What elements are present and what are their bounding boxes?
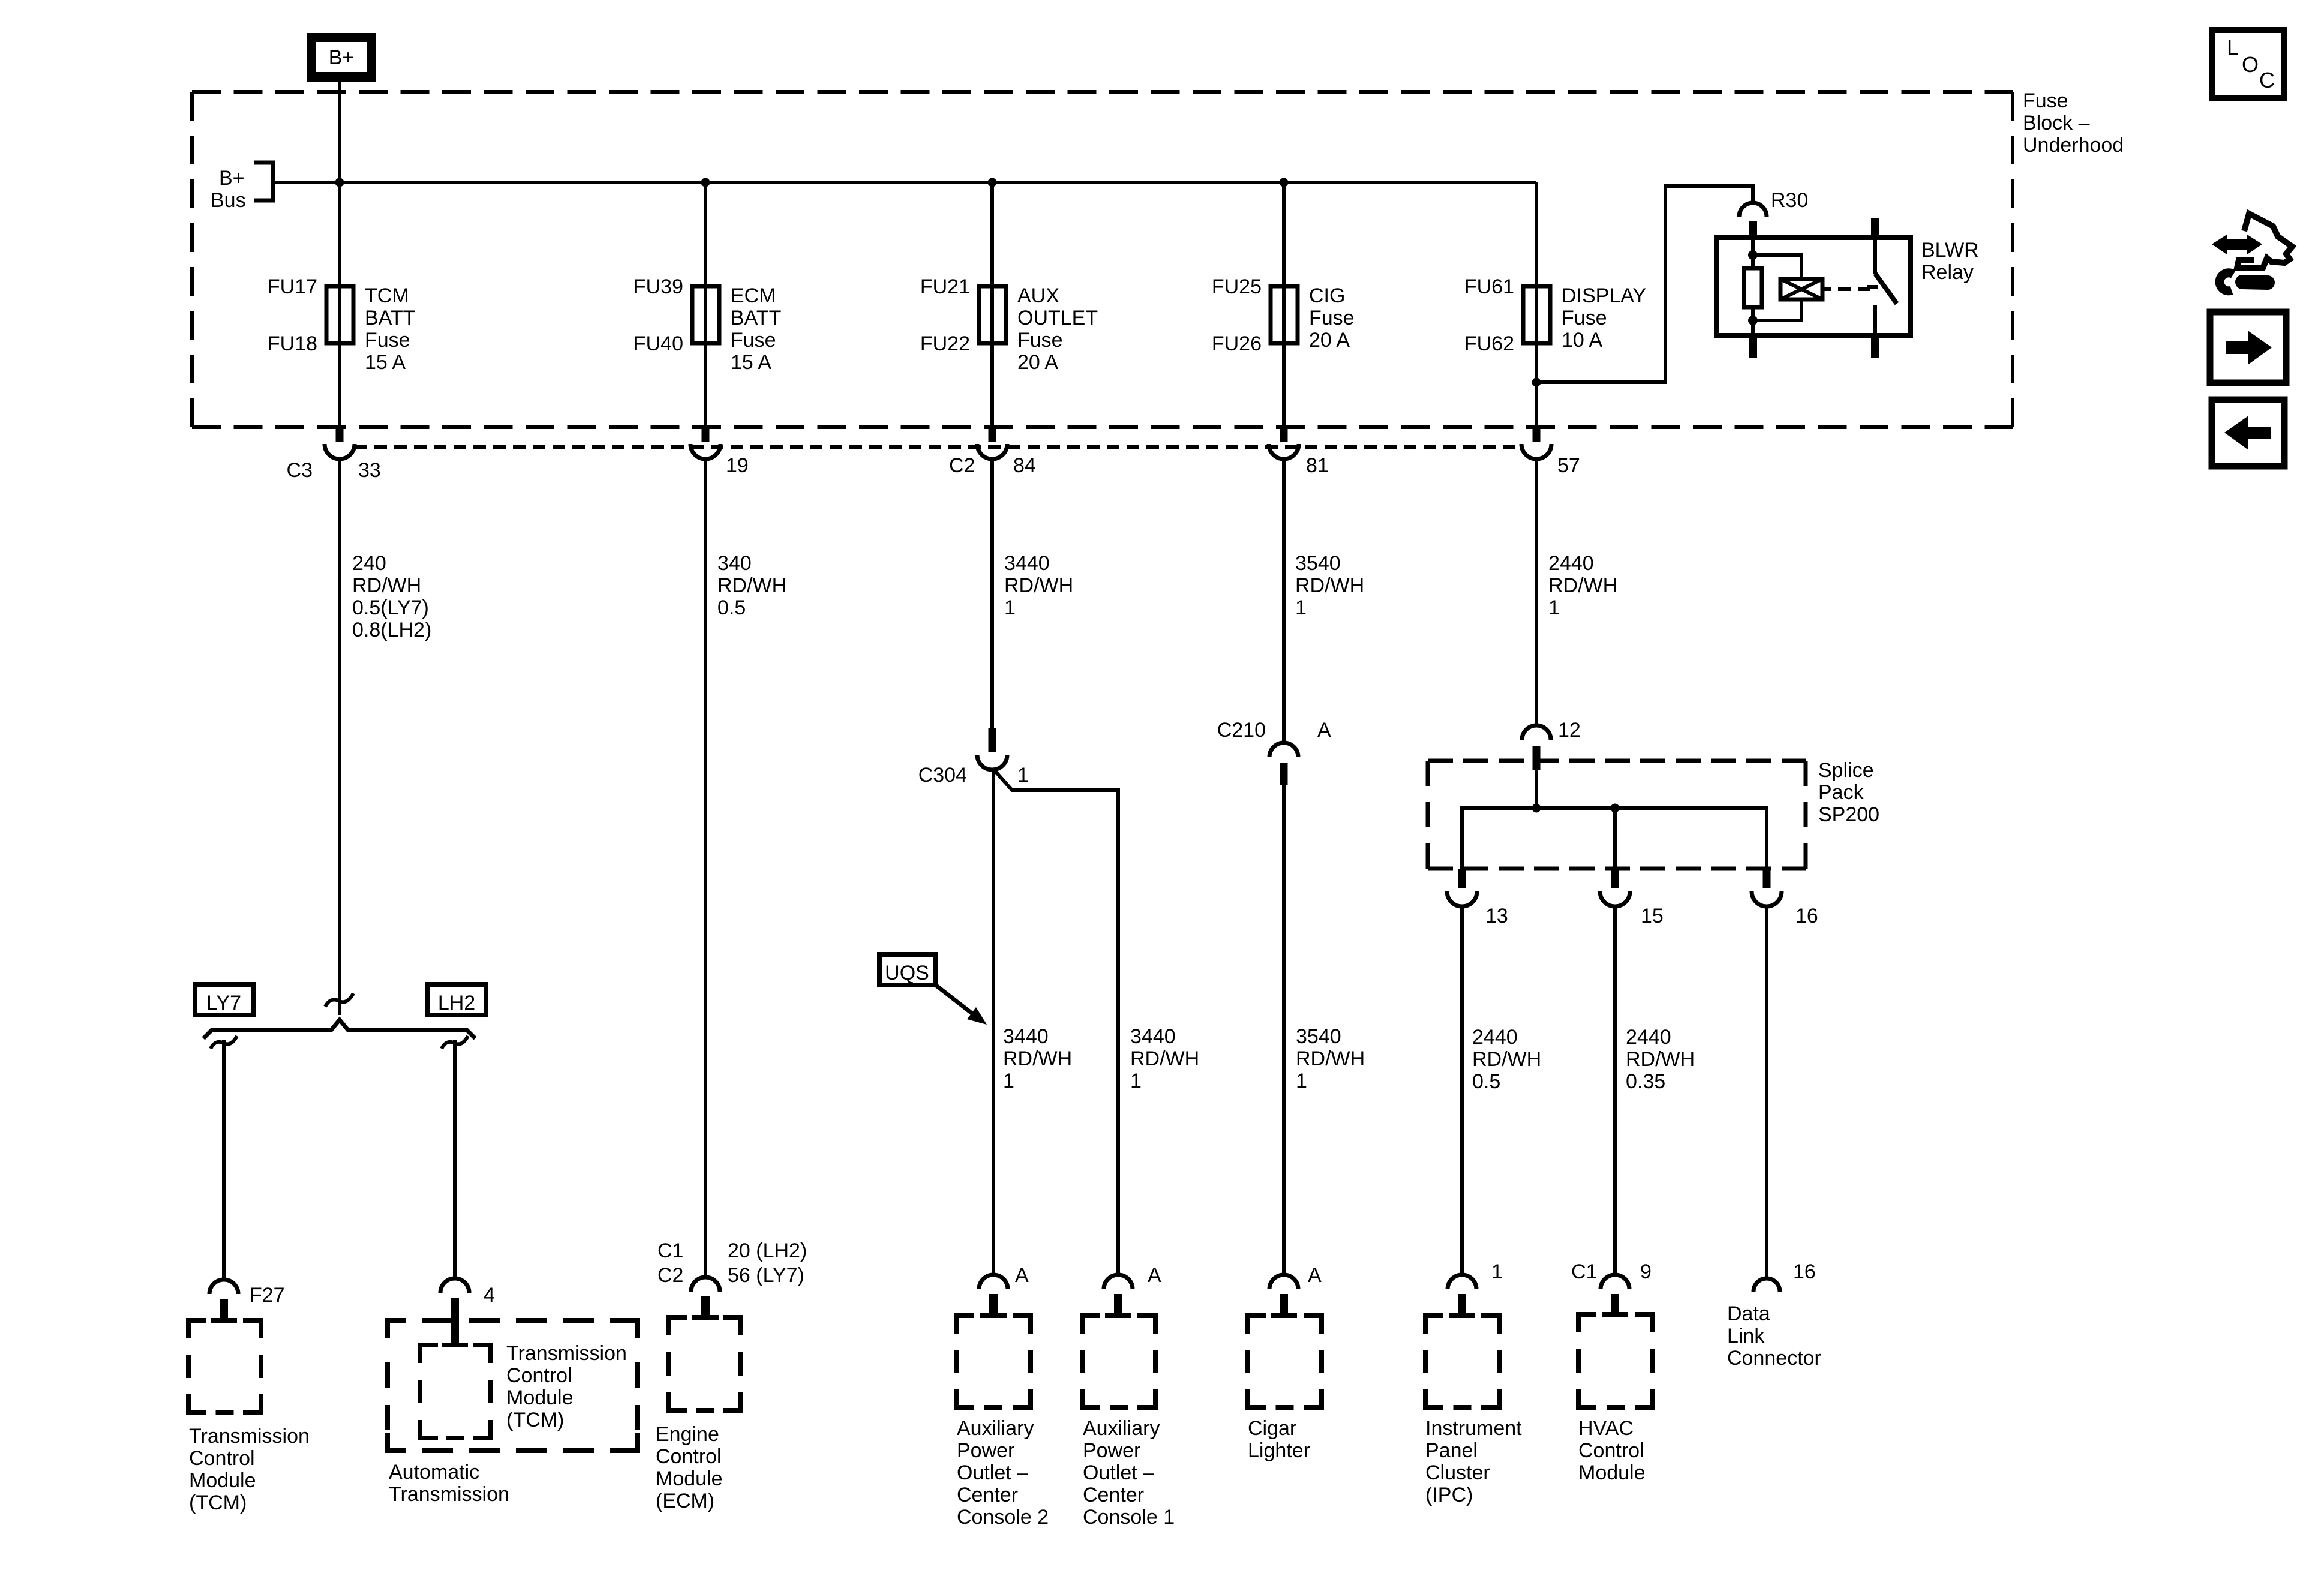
wire circuit 240 from C3 down (338, 459, 341, 1015)
svg-text:C304: C304 (918, 764, 967, 786)
connector splice output 16 (1752, 869, 1782, 906)
label Data Link Connector (1727, 1302, 1821, 1370)
connector 4 at automatic transmission (440, 1278, 469, 1347)
svg-text:BATT: BATT (365, 307, 415, 329)
svg-text:FU40: FU40 (633, 332, 683, 355)
module box HVAC Control Module (1578, 1314, 1653, 1407)
svg-text:B+: B+ (329, 46, 355, 69)
wire C210 to cigar lighter (1282, 785, 1286, 1276)
svg-text:84: 84 (1013, 454, 1036, 477)
icon wrench (2220, 273, 2268, 291)
label wire 3540 RD/WH lower (1296, 1025, 1365, 1092)
module box Cigar Lighter (1248, 1316, 1322, 1407)
connector row dotted line (355, 445, 1522, 449)
svg-text:Module: Module (506, 1386, 574, 1409)
connector pin 81 at fuse block output (1269, 425, 1299, 459)
wire winding to coil bottom junction (1753, 299, 1801, 320)
fuse block underhood dashed border (192, 92, 2013, 427)
connector at relay coil pin R30 (1739, 203, 1767, 239)
module box Automatic Transmission (388, 1320, 638, 1451)
relay switch blade (1875, 274, 1897, 304)
label fuse name DISPLAY (1562, 284, 1646, 352)
svg-text:Connector: Connector (1727, 1347, 1821, 1370)
label wire 2440 RD/WH 0.35 (1626, 1026, 1695, 1093)
connector C1/C2 at ECM (691, 1277, 720, 1320)
svg-text:(ECM): (ECM) (656, 1490, 714, 1512)
wire C304 to aux outlet console 2 (992, 769, 995, 1276)
svg-text:OUTLET: OUTLET (1017, 307, 1098, 329)
svg-text:3440: 3440 (1003, 1025, 1049, 1048)
svg-text:C1: C1 (657, 1239, 683, 1262)
svg-text:A: A (1317, 719, 1331, 742)
relay coil bottom pin (1749, 335, 1757, 358)
svg-text:Outlet –: Outlet – (1083, 1461, 1154, 1484)
svg-text:1: 1 (1017, 764, 1029, 786)
svg-text:AUX: AUX (1017, 284, 1059, 307)
power terminal B+ (307, 33, 376, 82)
svg-text:Bus: Bus (211, 189, 246, 212)
svg-text:20 (LH2): 20 (LH2) (728, 1239, 807, 1262)
svg-text:ECM: ECM (731, 284, 776, 307)
svg-text:(TCM): (TCM) (189, 1491, 247, 1514)
wire branch C304 to aux outlet console 1 (993, 769, 1118, 1276)
wire circuit 3540 from 81 down (1282, 459, 1286, 744)
svg-text:1: 1 (1296, 1070, 1307, 1092)
svg-text:FU22: FU22 (920, 332, 970, 355)
svg-text:RD/WH: RD/WH (1548, 574, 1617, 597)
icon wiring repair double arrow (2212, 235, 2262, 254)
svg-text:2440: 2440 (1626, 1026, 1671, 1049)
junction node on bus at TCM feed (335, 178, 344, 187)
label wire 340 RD/WH (717, 552, 786, 619)
connector C1-9 at HVAC (1601, 1275, 1629, 1317)
svg-text:1: 1 (1548, 596, 1560, 619)
svg-text:Center: Center (957, 1484, 1018, 1506)
svg-text:1: 1 (1295, 596, 1307, 619)
svg-text:Relay: Relay (1921, 261, 1974, 284)
relay actuating dashed link (1822, 287, 1870, 291)
connector 12 at splice pack (1522, 725, 1551, 770)
svg-text:Fuse: Fuse (1017, 329, 1063, 352)
svg-text:Module: Module (1578, 1461, 1646, 1484)
label Automatic Transmission (389, 1461, 509, 1506)
svg-text:Transmission: Transmission (389, 1483, 509, 1506)
inner module box TCM inside automatic transmission (420, 1345, 491, 1438)
label HVAC Control Module (1578, 1417, 1646, 1484)
svg-text:340: 340 (717, 552, 752, 575)
svg-text:C3: C3 (287, 459, 313, 482)
label box LH2 (427, 984, 486, 1015)
svg-text:0.5(LY7): 0.5(LY7) (352, 596, 429, 619)
brace engine option split (203, 1020, 475, 1038)
label box LY7 (195, 984, 253, 1015)
label Fuse Block - Underhood (2023, 89, 2124, 157)
svg-text:12: 12 (1558, 719, 1581, 742)
label Instrument Panel Cluster (IPC) (1425, 1417, 1522, 1506)
label Auxiliary Power Outlet Center Console 2 (957, 1417, 1049, 1529)
svg-text:1: 1 (1004, 596, 1016, 619)
svg-text:240: 240 (352, 552, 386, 575)
connector F27 at TCM (209, 1280, 238, 1323)
squiggle LH2 branch top (442, 1036, 468, 1049)
svg-text:57: 57 (1557, 454, 1580, 477)
svg-text:Link: Link (1727, 1325, 1765, 1347)
label Cigar Lighter (1248, 1417, 1310, 1462)
icon box arrow left (2212, 400, 2284, 466)
svg-text:Engine: Engine (656, 1423, 719, 1446)
label wire 240 RD/WH (352, 552, 431, 641)
connector 1 at IPC (1448, 1275, 1476, 1318)
svg-text:C: C (2259, 68, 2275, 92)
svg-text:Transmission: Transmission (189, 1425, 310, 1448)
junction node on bus at CIG feed (1280, 178, 1289, 187)
svg-text:FU61: FU61 (1464, 275, 1514, 298)
svg-text:RD/WH: RD/WH (1130, 1047, 1199, 1070)
svg-text:2440: 2440 (1548, 552, 1594, 575)
label wire 3440 RD/WH console2 (1003, 1025, 1072, 1092)
label 20 (LH2) 56 (LY7) (728, 1239, 807, 1287)
svg-text:(TCM): (TCM) (506, 1409, 564, 1431)
junction node splice at feed (1532, 804, 1541, 813)
junction node on bus at ECM feed (701, 178, 710, 187)
svg-text:RD/WH: RD/WH (1003, 1047, 1072, 1070)
svg-text:RD/WH: RD/WH (352, 574, 421, 597)
svg-text:(IPC): (IPC) (1425, 1484, 1473, 1506)
svg-text:1: 1 (1491, 1260, 1503, 1283)
svg-text:3540: 3540 (1296, 1025, 1341, 1048)
wire circuit 340 from 19 down (704, 459, 707, 1278)
svg-text:16: 16 (1793, 1260, 1816, 1283)
label wire 2440 RD/WH upper (1548, 552, 1617, 619)
relay winding element with X (1780, 279, 1822, 299)
wire DISPLAY fuse output to BLWR relay (1536, 186, 1753, 382)
svg-text:0.5: 0.5 (1472, 1070, 1500, 1093)
svg-text:Fuse: Fuse (2023, 89, 2068, 112)
wire LY7 branch to TCM (222, 1040, 226, 1281)
label C1 C2 (657, 1239, 683, 1287)
wire 12 into splice (1535, 764, 1538, 808)
svg-text:Control: Control (656, 1445, 722, 1468)
wire bus to fuse FU25 (1282, 182, 1286, 427)
svg-text:15 A: 15 A (365, 351, 406, 374)
svg-text:Automatic: Automatic (389, 1461, 479, 1484)
svg-text:FU17: FU17 (268, 275, 317, 298)
svg-text:81: 81 (1306, 454, 1329, 477)
connector A at aux outlet console 2 (979, 1275, 1008, 1318)
svg-text:4: 4 (484, 1284, 495, 1307)
relay switch bottom pin (1871, 335, 1879, 358)
connector pin C2 84 at fuse block output (977, 425, 1007, 459)
junction node splice middle (1611, 804, 1620, 813)
fuse FU17/FU18 TCM (326, 286, 353, 343)
relay coil branch wire (1751, 238, 1755, 268)
label box UQS (879, 954, 935, 985)
svg-text:1: 1 (1003, 1070, 1014, 1092)
svg-text:Control: Control (506, 1364, 572, 1387)
svg-text:Control: Control (1578, 1439, 1644, 1462)
svg-text:Transmission: Transmission (506, 1342, 627, 1365)
junction node on bus at AUX feed (988, 178, 997, 187)
svg-text:Cluster: Cluster (1425, 1461, 1490, 1484)
svg-text:A: A (1308, 1264, 1322, 1287)
fuse FU25/FU26 CIG (1271, 286, 1298, 343)
fuse FU39/FU40 ECM (692, 286, 719, 343)
svg-text:13: 13 (1485, 905, 1508, 927)
svg-text:C2: C2 (949, 454, 975, 477)
svg-text:F27: F27 (250, 1284, 285, 1307)
svg-text:TCM: TCM (365, 284, 409, 307)
svg-text:Fuse: Fuse (1309, 307, 1355, 329)
label fuse name CIG (1309, 284, 1355, 352)
label fuse name AUX (1017, 284, 1098, 374)
wire splice 13 to IPC (1460, 905, 1464, 1276)
wire bus to fuse FU39 (704, 182, 707, 427)
squiggle LY7 branch top (211, 1036, 237, 1049)
svg-text:Fuse: Fuse (731, 329, 776, 352)
connector 16 data link connector (1753, 1278, 1780, 1292)
svg-text:Cigar: Cigar (1248, 1417, 1296, 1440)
wire splice middle leg (1613, 808, 1617, 870)
relay switch pivot tick (1867, 285, 1878, 289)
svg-text:Module: Module (189, 1469, 256, 1492)
svg-text:FU26: FU26 (1212, 332, 1262, 355)
svg-text:Instrument: Instrument (1425, 1417, 1522, 1440)
wire parallel branch to relay winding (1753, 255, 1801, 279)
wire break squiggle at engine option split (325, 993, 353, 1007)
svg-text:20 A: 20 A (1309, 329, 1350, 352)
label BLWR Relay (1921, 239, 1979, 284)
svg-text:Power: Power (1083, 1439, 1140, 1462)
label Auxiliary Power Outlet Center Console 1 (1083, 1417, 1175, 1529)
junction node relay coil bottom (1748, 316, 1758, 325)
svg-text:10 A: 10 A (1562, 329, 1602, 352)
svg-text:15 A: 15 A (731, 351, 771, 374)
wire splice 15 to HVAC (1613, 905, 1617, 1276)
icon box arrow right (2210, 312, 2286, 383)
svg-text:19: 19 (726, 454, 749, 477)
relay R30 BLWR box (1716, 238, 1911, 335)
svg-text:RD/WH: RD/WH (1472, 1048, 1541, 1071)
svg-text:B+: B+ (219, 167, 245, 190)
svg-text:C2: C2 (657, 1264, 683, 1287)
svg-text:RD/WH: RD/WH (1295, 574, 1364, 597)
svg-text:Auxiliary: Auxiliary (1083, 1417, 1160, 1440)
svg-text:Pack: Pack (1818, 781, 1864, 804)
connector pin 19 at fuse block output (690, 425, 720, 459)
icon wiring repair outline shape (2237, 214, 2292, 268)
arrow UQS to wire (934, 984, 987, 1025)
wire LH2 branch to automatic transmission (453, 1040, 457, 1280)
svg-text:O: O (2242, 52, 2259, 77)
svg-text:FU25: FU25 (1212, 275, 1262, 298)
label fuse name TCM (365, 284, 415, 374)
svg-text:UQS: UQS (885, 962, 929, 984)
svg-text:Data: Data (1727, 1302, 1770, 1325)
svg-text:FU21: FU21 (920, 275, 970, 298)
svg-text:RD/WH: RD/WH (1296, 1047, 1365, 1070)
wire circuit 2440 from 57 down (1535, 459, 1538, 725)
svg-text:Auxiliary: Auxiliary (957, 1417, 1034, 1440)
label wire 3440 RD/WH upper (1004, 552, 1073, 619)
svg-text:0.8(LH2): 0.8(LH2) (352, 619, 431, 641)
wire bus to fuse FU21 (990, 182, 994, 427)
label wire 3440 RD/WH console1 (1130, 1025, 1199, 1092)
module box Instrument Panel Cluster (1425, 1316, 1499, 1407)
svg-text:Console 1: Console 1 (1083, 1506, 1175, 1529)
svg-text:56 (LY7): 56 (LY7) (728, 1264, 804, 1287)
connector splice output 13 (1447, 869, 1477, 906)
svg-text:LH2: LH2 (438, 992, 475, 1014)
wire B+ terminal to bus (338, 79, 341, 182)
label inner Transmission Control Module (TCM) (506, 1342, 627, 1431)
svg-text:20 A: 20 A (1017, 351, 1058, 374)
B+ Bus label and bracket (211, 163, 273, 212)
connector C210 (1269, 743, 1298, 785)
fuse FU21/FU22 AUX (979, 286, 1006, 343)
label Transmission Control Module (TCM) (189, 1425, 310, 1514)
svg-text:0.5: 0.5 (717, 596, 746, 619)
svg-text:RD/WH: RD/WH (1626, 1048, 1695, 1071)
fuse FU61/FU62 DISPLAY (1523, 286, 1550, 343)
svg-text:16: 16 (1795, 905, 1818, 927)
svg-text:L: L (2227, 35, 2239, 59)
svg-text:3440: 3440 (1004, 552, 1050, 575)
connector A at aux outlet console 1 (1104, 1275, 1133, 1318)
label Splice Pack SP200 (1818, 759, 1879, 826)
svg-text:FU18: FU18 (268, 332, 317, 355)
wire bus to fuse FU17 (338, 182, 341, 427)
svg-text:C1: C1 (1571, 1260, 1597, 1283)
svg-text:BATT: BATT (731, 307, 781, 329)
wire bus to fuse FU61 (1535, 182, 1538, 427)
svg-text:Center: Center (1083, 1484, 1144, 1506)
svg-text:Outlet –: Outlet – (957, 1461, 1028, 1484)
connector pin C3 33 at fuse block output (325, 425, 355, 459)
module box Engine Control Module ECM (669, 1317, 741, 1410)
junction node DISPLAY fuse to relay feed (1532, 378, 1541, 387)
label wire 3540 RD/WH upper (1295, 552, 1364, 619)
label Engine Control Module (ECM) (656, 1423, 723, 1512)
B+ bus wire (273, 181, 1536, 184)
svg-text:RD/WH: RD/WH (717, 574, 786, 597)
label wire 2440 RD/WH 0.5 (1472, 1026, 1541, 1093)
svg-text:Control: Control (189, 1447, 255, 1470)
svg-text:LY7: LY7 (206, 992, 241, 1014)
relay switch top pin (1871, 218, 1879, 238)
svg-text:Console 2: Console 2 (957, 1506, 1049, 1529)
svg-text:1: 1 (1130, 1070, 1142, 1092)
svg-text:15: 15 (1641, 905, 1664, 927)
svg-text:HVAC: HVAC (1578, 1417, 1634, 1440)
svg-text:Panel: Panel (1425, 1439, 1478, 1462)
wire splice 16 to data link connector (1765, 905, 1768, 1280)
module box Transmission Control Module TCM (188, 1320, 261, 1412)
svg-text:Underhood: Underhood (2023, 134, 2124, 157)
svg-text:Module: Module (656, 1467, 723, 1490)
svg-text:Block –: Block – (2023, 112, 2090, 134)
svg-text:BLWR: BLWR (1921, 239, 1979, 262)
resistor inside relay (1744, 268, 1762, 307)
svg-text:33: 33 (358, 459, 381, 482)
splice bus wire (1462, 808, 1767, 870)
connector C304 (977, 728, 1007, 770)
connector splice output 15 (1600, 869, 1630, 906)
svg-text:3440: 3440 (1130, 1025, 1176, 1048)
module box Auxiliary Power Outlet Center Console 2 (956, 1316, 1031, 1407)
wire resistor to relay box bottom (1751, 307, 1755, 335)
svg-text:FU39: FU39 (633, 275, 683, 298)
svg-text:SP200: SP200 (1818, 803, 1879, 826)
svg-text:3540: 3540 (1295, 552, 1341, 575)
svg-text:FU62: FU62 (1464, 332, 1514, 355)
relay switch fixed contact top (1873, 238, 1877, 274)
splice pack SP200 dashed box (1428, 761, 1806, 869)
svg-text:Fuse: Fuse (1562, 307, 1607, 329)
module box Auxiliary Power Outlet Center Console 1 (1082, 1316, 1155, 1407)
svg-text:DISPLAY: DISPLAY (1562, 284, 1646, 307)
connector A at cigar lighter (1269, 1275, 1298, 1318)
svg-text:9: 9 (1640, 1260, 1652, 1283)
junction node relay coil top (1748, 250, 1758, 260)
svg-text:0.35: 0.35 (1626, 1070, 1665, 1093)
svg-text:A: A (1148, 1264, 1161, 1287)
wire circuit 3440 from C2-84 down (990, 459, 994, 730)
svg-text:R30: R30 (1771, 189, 1808, 212)
svg-text:A: A (1015, 1264, 1029, 1287)
relay switch fixed contact bottom (1873, 305, 1877, 335)
label fuse name ECM (731, 284, 781, 374)
svg-text:Splice: Splice (1818, 759, 1874, 782)
svg-text:Power: Power (957, 1439, 1014, 1462)
svg-text:C210: C210 (1217, 719, 1266, 742)
icon box LOC (2212, 30, 2284, 98)
connector pin 57 at fuse block output (1521, 425, 1551, 459)
svg-text:CIG: CIG (1309, 284, 1345, 307)
svg-text:RD/WH: RD/WH (1004, 574, 1073, 597)
svg-text:2440: 2440 (1472, 1026, 1518, 1049)
svg-text:Fuse: Fuse (365, 329, 410, 352)
svg-text:Lighter: Lighter (1248, 1439, 1310, 1462)
